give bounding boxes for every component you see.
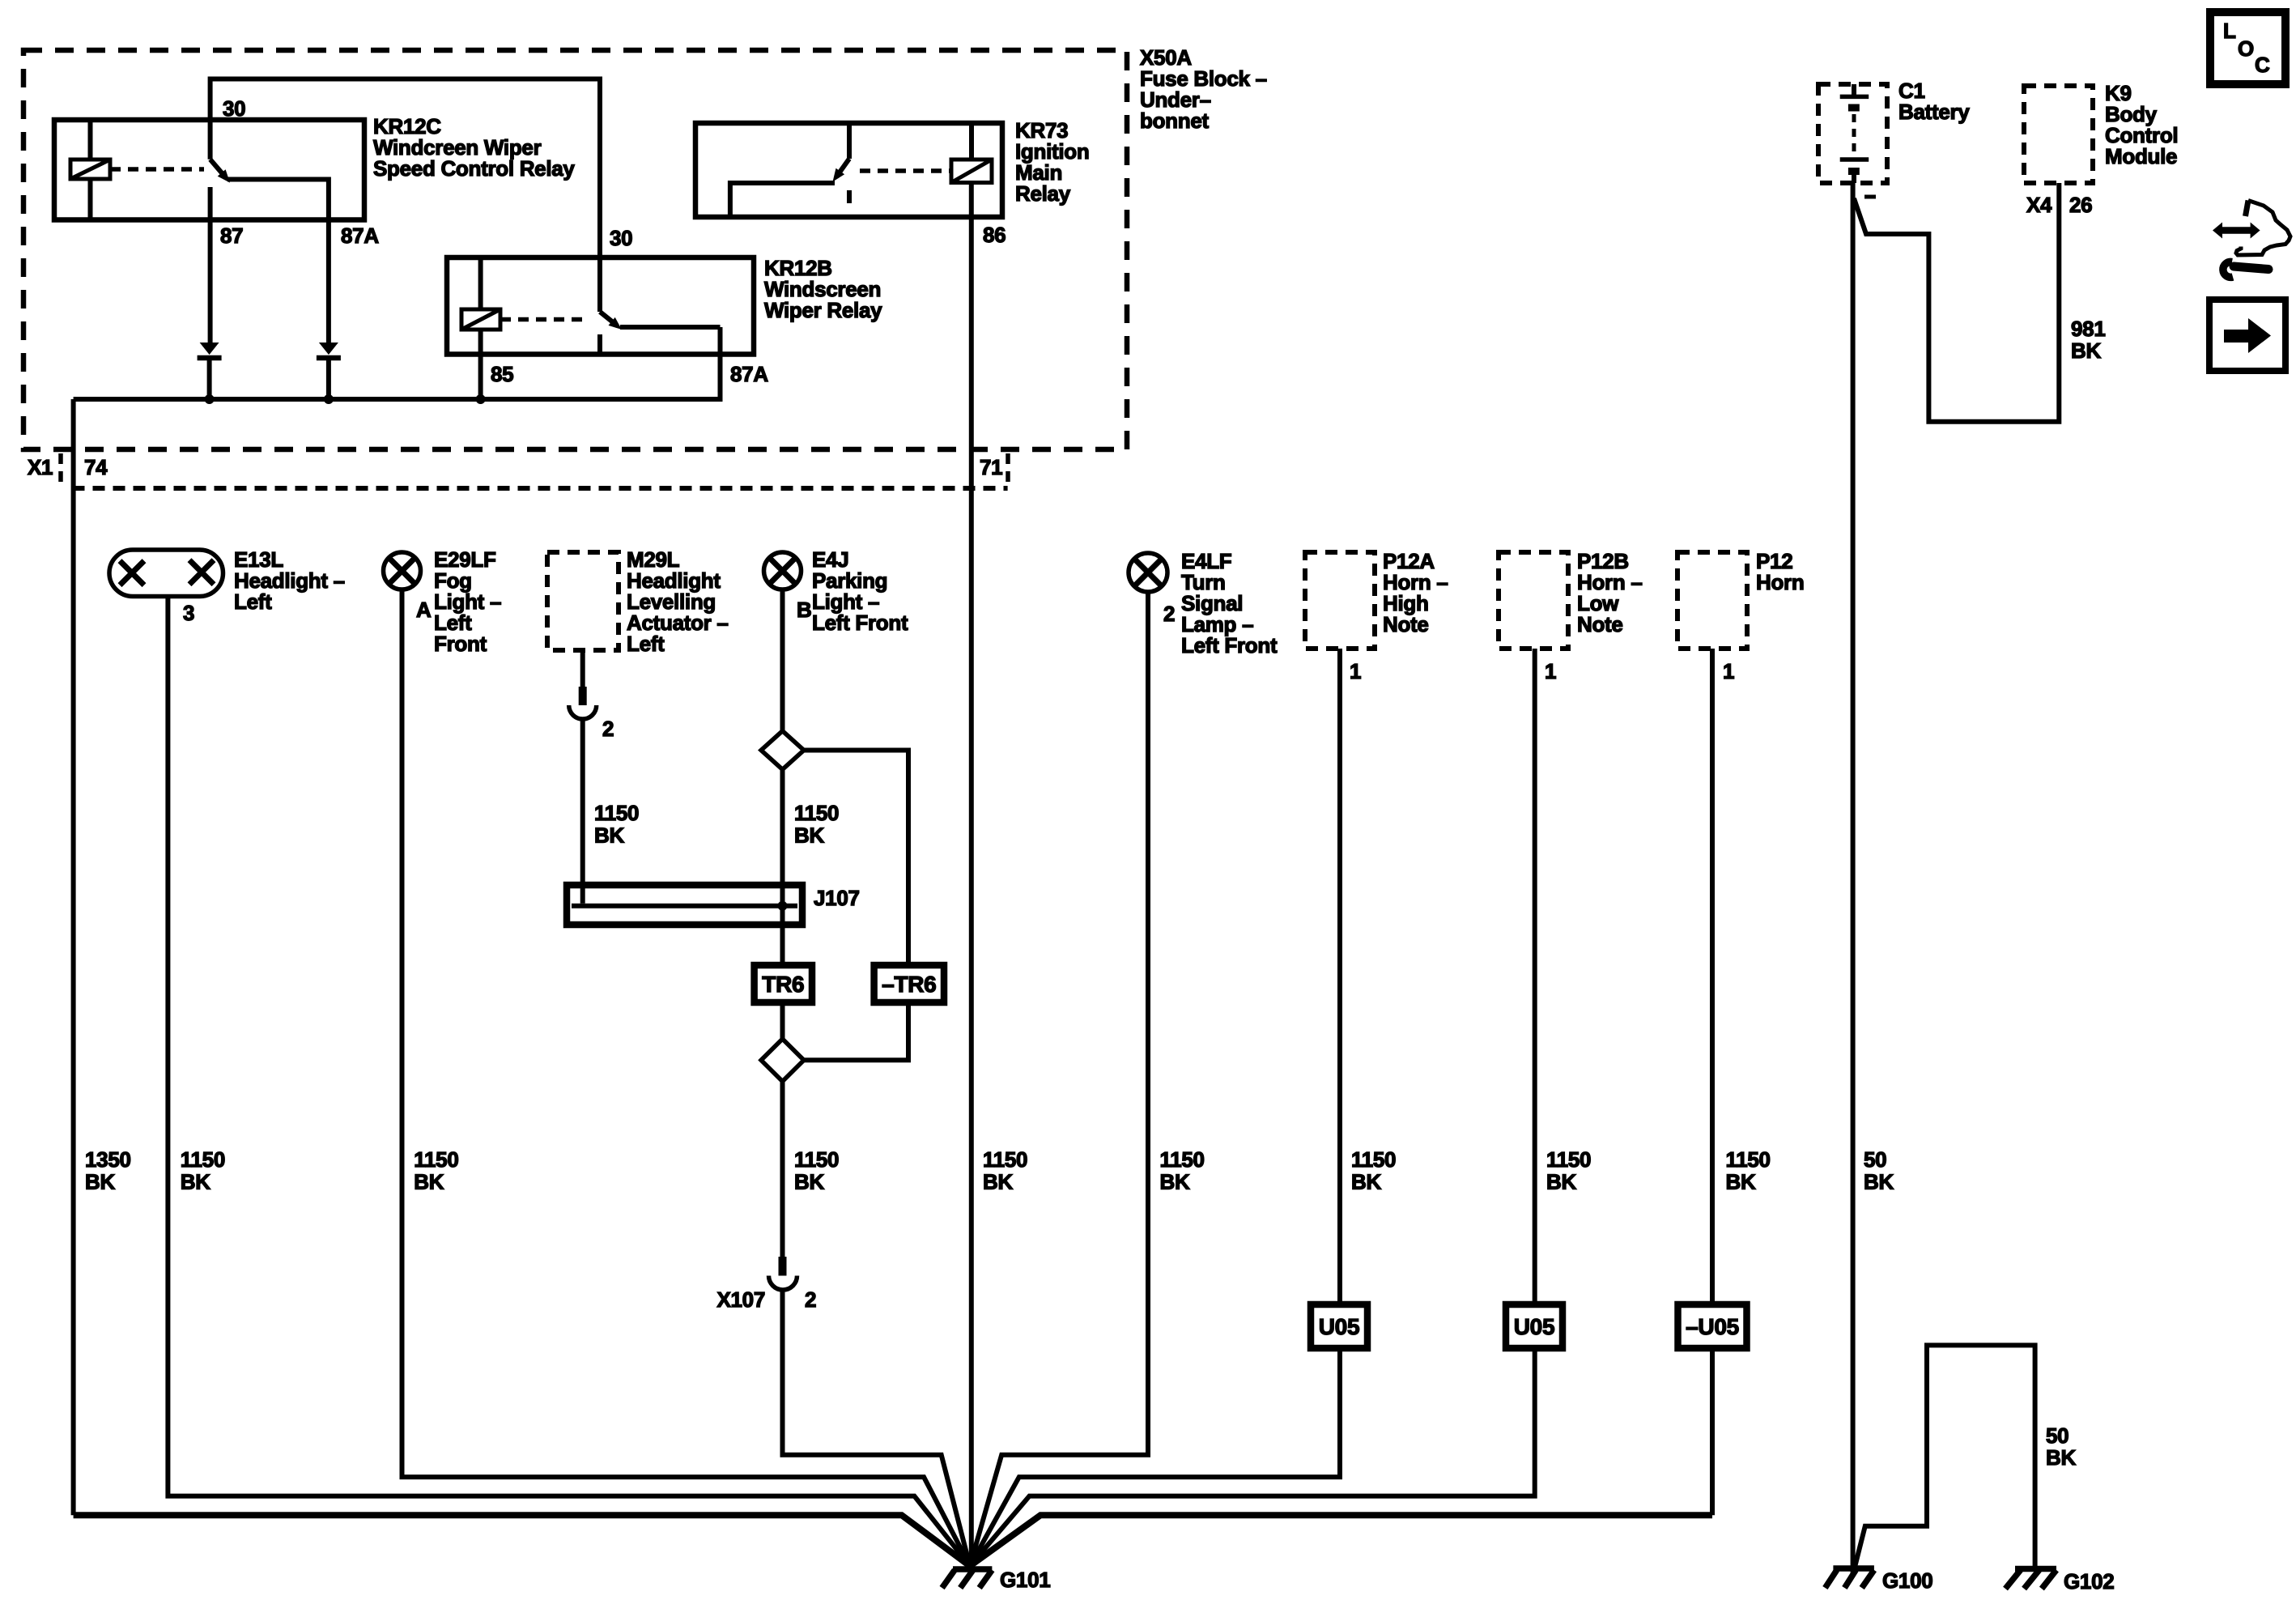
svg-text:X50AFuse Block –Under–bonnet: X50AFuse Block –Under–bonnet (1140, 45, 1267, 133)
connector X1 left tick (58, 453, 63, 488)
horn P12B dashed box (1499, 552, 1568, 649)
svg-text:1150BK: 1150BK (414, 1147, 458, 1194)
wire E29LF to G101 (1150 BK) (402, 589, 971, 1566)
relay KR12B box (447, 257, 754, 355)
relay KR73 switch common (847, 123, 852, 159)
relay KR12B output to terminal 87A (620, 325, 721, 330)
svg-text:K9BodyControlModule: K9BodyControlModule (2105, 81, 2178, 168)
svg-text:50BK: 50BK (1864, 1147, 1894, 1194)
inline connector pin (X107) (779, 1257, 787, 1276)
wire P12B to G101 (1150 BK) (970, 649, 1535, 1566)
arrow box icon (2209, 300, 2285, 371)
svg-text:74: 74 (84, 455, 108, 479)
relay KR12C coil (70, 160, 110, 179)
ground bus inside fuse block (74, 327, 721, 399)
svg-text:1150BK: 1150BK (794, 801, 839, 848)
svg-text:85: 85 (491, 362, 513, 386)
svg-text:1350BK: 1350BK (85, 1147, 131, 1194)
relay KR12B coil feed / terminal 85 wire (478, 257, 483, 399)
ground G102 (2015, 1566, 2056, 1572)
relay KR12C box (54, 120, 364, 220)
svg-text:3: 3 (183, 601, 194, 625)
svg-text:1150BK: 1150BK (1726, 1147, 1771, 1194)
relay KR12C coil-switch dashed link (110, 167, 204, 172)
svg-text:C: C (2255, 53, 2270, 77)
relay KR12B coil (461, 309, 500, 330)
lamp E4LF turn signal symbol (1129, 553, 1167, 592)
svg-text:2: 2 (1163, 602, 1175, 626)
relay KR73 switch output (730, 183, 835, 217)
svg-text:M29LHeadlightLevellingActuator: M29LHeadlightLevellingActuator –Left (627, 547, 729, 656)
wire TR6 to lower diamond (780, 1002, 785, 1039)
svg-text:P12AHorn –HighNote: P12AHorn –HighNote (1383, 549, 1448, 636)
battery C1 dashed box (1818, 84, 1887, 183)
marker -TR6 (874, 965, 944, 1002)
ground G100 (1833, 1565, 1874, 1572)
svg-text:1150BK: 1150BK (983, 1147, 1027, 1194)
wire branch to -TR6 (804, 751, 908, 966)
connector X1 right tick (1006, 453, 1010, 488)
svg-text:X107: X107 (716, 1287, 765, 1312)
svg-text:E4LFTurnSignalLamp –Left Front: E4LFTurnSignalLamp –Left Front (1181, 549, 1278, 657)
svg-text:1: 1 (1723, 659, 1734, 683)
svg-text:O: O (2238, 36, 2254, 61)
marker -U05 (P12) (1678, 1304, 1747, 1348)
svg-text:87: 87 (220, 223, 243, 248)
splice diamond lower (761, 1039, 804, 1081)
svg-text:L: L (2223, 19, 2236, 43)
svg-text:G100: G100 (1882, 1568, 1932, 1593)
svg-text:26: 26 (2069, 193, 2092, 217)
wire E4J down to splice diamond (780, 589, 785, 731)
svg-text:1150BK: 1150BK (1160, 1147, 1205, 1194)
svg-text:2: 2 (805, 1287, 816, 1312)
relay KR73 switch blade (836, 159, 849, 177)
wire E4LF to G101 (1150 BK) (970, 592, 1148, 1566)
relay KR12C switch blade (210, 160, 223, 175)
double arrow icon (2219, 227, 2253, 234)
marker U05 (P12B) (1506, 1304, 1563, 1348)
svg-text:30: 30 (610, 226, 632, 250)
svg-text:U05: U05 (1319, 1314, 1359, 1339)
svg-text:50BK: 50BK (2046, 1423, 2076, 1470)
junction dot diode D1 (205, 394, 215, 404)
wire diamond to J107 and TR6 (1150 BK) (780, 769, 785, 965)
lamp E29LF fog light symbol (384, 552, 421, 589)
svg-text:X4: X4 (2026, 193, 2052, 217)
marker U05 (P12A) (1311, 1304, 1367, 1348)
svg-text:A: A (416, 598, 432, 622)
svg-text:G101: G101 (1000, 1568, 1050, 1592)
svg-text:1: 1 (1545, 659, 1556, 683)
relay KR12B NO stub (597, 334, 602, 353)
svg-text:C1Battery: C1Battery (1898, 79, 1970, 124)
wire 1350 BK fuse block to G101 (71, 399, 76, 1515)
relay KR12B switch blade (600, 312, 614, 324)
wire 86 from KR73 through pin 71 down to G101 (969, 183, 974, 1570)
svg-text:J107: J107 (814, 886, 860, 910)
svg-text:1150BK: 1150BK (594, 801, 639, 848)
svg-text:30: 30 (223, 96, 245, 121)
svg-text:P12Horn: P12Horn (1756, 549, 1804, 594)
junction dot diode D2 (324, 394, 334, 404)
fuse block X50A dashed outline (23, 50, 1127, 449)
diode D2 on 87A wire (319, 343, 338, 355)
svg-text:1150BK: 1150BK (1546, 1147, 1591, 1194)
svg-text:86: 86 (983, 223, 1006, 247)
svg-text:1150BK: 1150BK (181, 1147, 225, 1194)
connector X1 lower dashed line (73, 486, 1008, 491)
svg-text:–TR6: –TR6 (882, 972, 936, 997)
relay KR73 coil-switch dashed link (860, 168, 951, 173)
svg-text:G102: G102 (2064, 1569, 2114, 1594)
svg-text:2: 2 (602, 717, 614, 741)
horn P12A dashed box (1305, 552, 1375, 649)
svg-text:X1: X1 (28, 455, 53, 479)
junction dot 85 (476, 394, 486, 404)
svg-text:981BK: 981BK (2071, 317, 2105, 363)
svg-text:1150BK: 1150BK (1351, 1147, 1396, 1194)
wire P12A to G101 (1150 BK) (970, 649, 1340, 1566)
svg-text:E4JParkingLight –Left Front: E4JParkingLight –Left Front (812, 547, 908, 635)
wrench icon (2223, 262, 2233, 277)
LOC icon box (2210, 12, 2285, 84)
inline connector pin (M29L) (579, 687, 587, 705)
wire battery negative 50 BK to G100 (1851, 183, 1856, 1573)
svg-text:P12BHorn –LowNote: P12BHorn –LowNote (1577, 549, 1643, 636)
lamp E13L headlight symbol (109, 550, 223, 597)
svg-text:B: B (797, 598, 811, 622)
svg-text:87A: 87A (730, 362, 768, 386)
module K9 dashed box (2024, 86, 2093, 183)
marker TR6 (755, 965, 812, 1002)
svg-text:87A: 87A (341, 223, 379, 248)
svg-text:E13LHeadlight –Left: E13LHeadlight –Left (234, 547, 345, 614)
wire M29L pin 2 (580, 650, 585, 688)
wire -TR6 to lower diamond (804, 1002, 908, 1060)
svg-text:71: 71 (980, 455, 1002, 479)
diode D1 on 87 wire (200, 343, 219, 355)
relay KR73 box (695, 123, 1002, 217)
wire 30 bus: KR12C common up, across, down to KR12B common (210, 79, 600, 313)
wire 981 BK battery to K9 (1854, 183, 2059, 422)
lamp E4J parking light symbol (764, 552, 801, 589)
svg-text:KR12BWindscreenWiper Relay: KR12BWindscreenWiper Relay (764, 256, 882, 322)
svg-text:1: 1 (1350, 659, 1361, 683)
wire lower diamond to X107 (1150 BK) (780, 1082, 785, 1259)
relay KR73 NO stub (847, 190, 852, 203)
svg-text:KR12CWindcreen WiperSpeed Cont: KR12CWindcreen WiperSpeed Control Relay (373, 114, 575, 181)
wire X107 to G101 (783, 1289, 971, 1566)
svg-text:–U05: –U05 (1686, 1314, 1739, 1339)
svg-text:TR6: TR6 (762, 972, 804, 997)
wire E13L to G101 (1150 BK) (168, 597, 970, 1567)
inline connector cup (M29L) (569, 705, 597, 719)
svg-text:KR73IgnitionMainRelay: KR73IgnitionMainRelay (1015, 118, 1089, 206)
splice diamond upper (761, 731, 804, 770)
ground G101 (953, 1566, 992, 1572)
svg-text:U05: U05 (1514, 1314, 1554, 1339)
relay KR12B coil-switch dashed link (500, 317, 589, 322)
junction block J107 (567, 885, 802, 925)
horn P12 dashed box (1677, 552, 1747, 649)
junction dot J107 (778, 901, 788, 911)
actuator M29L dashed box (547, 552, 619, 650)
wire 50 BK branch to G102 (1854, 1345, 2035, 1571)
relay KR73 coil (951, 160, 992, 183)
relay KR12C coil feed wires (88, 120, 93, 220)
relay KR12C terminal 87 wire (208, 187, 213, 343)
relay KR12C output to terminal 87A (227, 180, 329, 343)
wire M29L to J107 (1150 BK) (580, 719, 585, 904)
svg-text:1150BK: 1150BK (794, 1147, 839, 1194)
inline connector cup (X107) (769, 1276, 797, 1291)
svg-text:E29LFFogLight –LeftFront: E29LFFogLight –LeftFront (434, 547, 501, 656)
wire P12 to G101 (1150 BK) (1710, 649, 1715, 1348)
battery minus label (1864, 195, 1876, 199)
battery symbol (1852, 84, 1856, 96)
relay KR73 coil feed (969, 123, 974, 160)
hood location icon (2246, 201, 2249, 217)
